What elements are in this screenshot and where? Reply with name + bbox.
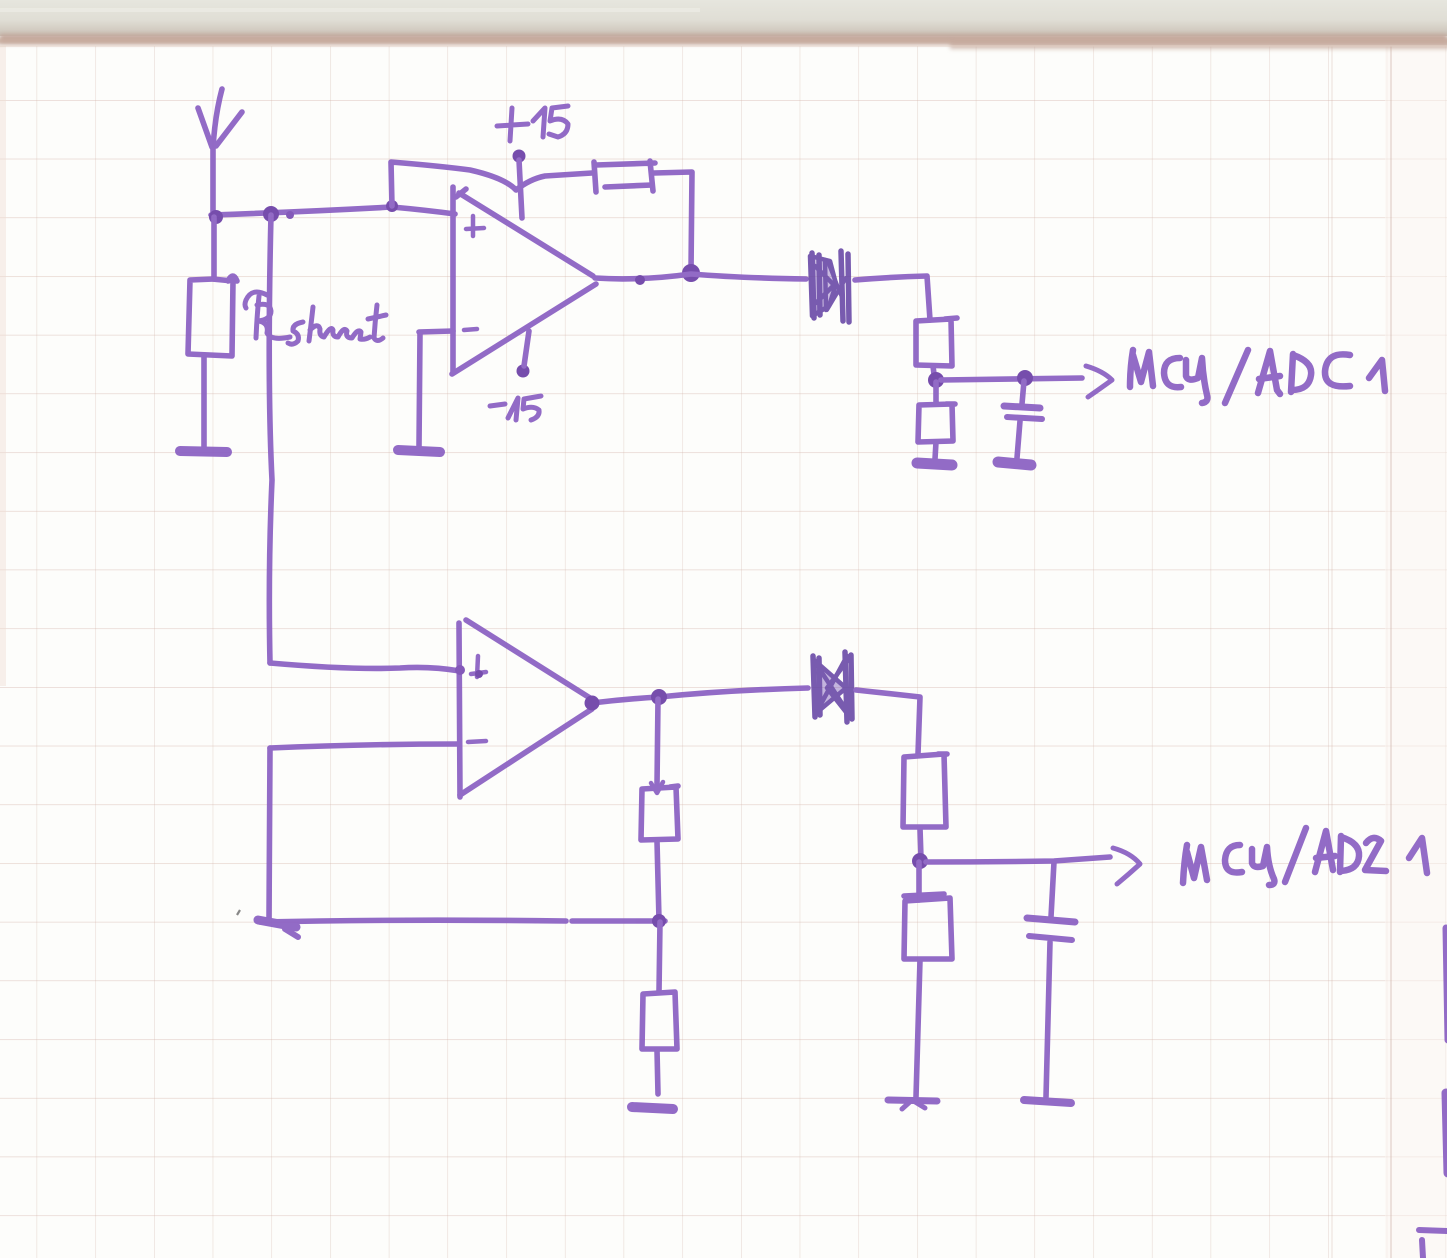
node: C1 tap junction bbox=[1017, 370, 1033, 386]
wire: R3 to ground bbox=[935, 442, 936, 459]
resistor R5 bbox=[642, 992, 677, 1049]
op-amp U2 bbox=[459, 623, 460, 797]
wire: rail junction down to R5 bbox=[659, 922, 660, 992]
stray ink at right page edge bbox=[1446, 928, 1447, 1040]
ground: below C2 bbox=[1024, 1100, 1071, 1103]
op-amp U1 bbox=[450, 187, 456, 373]
node: rail junction bbox=[652, 914, 666, 928]
pin: U2 + input marker bbox=[471, 656, 486, 677]
node: feedback/output junction bbox=[682, 264, 700, 282]
wire: -15 stem from U1 bbox=[524, 331, 529, 366]
wire: into U2 + input bbox=[270, 663, 460, 671]
node: feedback riser junction bbox=[386, 200, 398, 212]
wire: R1 right lead down to output bbox=[654, 172, 692, 272]
resistor R1 feedback bbox=[594, 161, 655, 192]
wire: bottom feedback rail bbox=[260, 920, 665, 922]
resistor R7 bbox=[916, 862, 922, 900]
supply -15 terminal dot bbox=[517, 365, 530, 378]
resistor R6 bbox=[903, 754, 947, 827]
wire: U1 - input to ground bbox=[419, 331, 453, 332]
wire: R_shunt bottom lead bbox=[201, 356, 207, 448]
supply +15 terminal dot bbox=[513, 150, 526, 163]
node: U2 output apex bbox=[585, 696, 600, 711]
wire: U2 - input leg bbox=[270, 744, 458, 748]
label net MCu/ADZ 1 bbox=[1183, 828, 1427, 885]
wire: input bus from antenna to U1 +in bbox=[211, 207, 455, 215]
node: dot on U1 output wire bbox=[635, 275, 645, 285]
node A: tap to U2 bbox=[263, 206, 279, 222]
label net MCU/ADC 1 bbox=[1130, 350, 1385, 403]
wire: U2 output bbox=[592, 688, 808, 703]
resistor R4 bbox=[641, 786, 678, 840]
node: rail left end blob bbox=[258, 920, 296, 927]
wire: left riser of U2 feedback loop bbox=[269, 748, 270, 920]
wire: D2 cathode to R6 bbox=[856, 690, 920, 754]
pin: U1 - input marker bbox=[464, 329, 477, 330]
diode D1 bbox=[810, 251, 849, 322]
wire: divider node to MCU/ADC1 arrow bbox=[941, 378, 1082, 380]
wire: R6 to ADC2 node bbox=[920, 828, 921, 858]
wire: feedback return to +in node, hops over +15 stem bbox=[391, 162, 592, 206]
node: ADC2 divider junction bbox=[912, 853, 928, 869]
wire: R5 to ground bbox=[657, 1050, 658, 1094]
label R_shunt bbox=[245, 292, 386, 344]
wire: +15 stem into U1 bbox=[519, 160, 522, 218]
node: ink dot on input wire bbox=[286, 211, 294, 219]
diode D2 bbox=[813, 652, 852, 722]
wire: D1 cathode to R2 bbox=[855, 276, 930, 320]
node: U2 +in junction bbox=[455, 665, 465, 675]
resistor R3 bbox=[918, 382, 955, 442]
ground: below C1 bbox=[998, 462, 1031, 465]
arrow to MCU/ADZ1 bbox=[1113, 848, 1140, 884]
wire: R_shunt top lead bbox=[211, 217, 217, 279]
node: junction at antenna corner bbox=[209, 210, 223, 224]
ground: below R3 bbox=[917, 463, 952, 465]
wire: R4 to rail junction bbox=[657, 841, 659, 920]
wire: U1 output bbox=[595, 274, 806, 279]
capacitor C1 bbox=[1022, 381, 1024, 404]
ground: below R5 bbox=[632, 1107, 673, 1109]
node: ADC1 divider junction bbox=[928, 372, 944, 388]
pin: U2 - input marker bbox=[468, 741, 486, 742]
ground: U1 - input bbox=[398, 450, 440, 452]
ground: below R7 bbox=[888, 1100, 937, 1101]
wire: output tap down to R4 bbox=[657, 699, 658, 786]
ground: below R_shunt bbox=[180, 451, 227, 452]
wire: node A down to U2 stage bbox=[269, 215, 272, 663]
wire: R2 to divider node bbox=[933, 366, 935, 382]
label +15 bbox=[497, 108, 528, 141]
wire: divider node to MCU/ADZ1 arrow bbox=[926, 857, 1110, 862]
pin: U1 + input marker bbox=[466, 216, 484, 236]
wire: R7 to ground bbox=[916, 960, 920, 1097]
antenna input bbox=[213, 89, 222, 217]
capacitor C2 bbox=[1051, 862, 1054, 917]
resistor R_shunt bbox=[188, 276, 237, 356]
arrow to MCU/ADC1 bbox=[1086, 366, 1112, 397]
label -15 bbox=[490, 404, 505, 406]
resistor R2 bbox=[916, 318, 957, 366]
node: output tap junction bbox=[651, 689, 667, 705]
